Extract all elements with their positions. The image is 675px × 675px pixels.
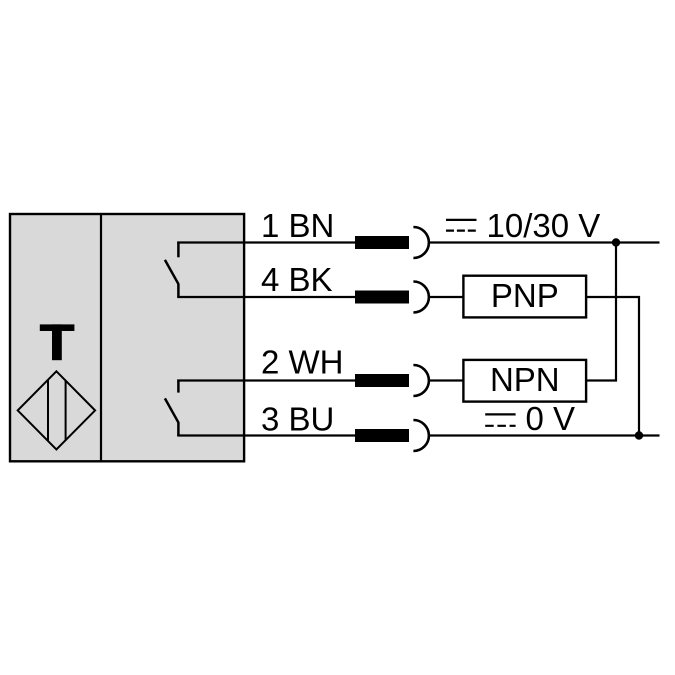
T symbol (sensor function mark) xyxy=(40,324,75,360)
svg-text:1 BN: 1 BN xyxy=(261,207,334,244)
housing divider line xyxy=(100,214,102,461)
wire 3 BU (pin 3, left segment) xyxy=(177,434,356,436)
diamond (sensor element symbol) xyxy=(18,371,95,449)
DC symbol (0 V) xyxy=(485,414,515,425)
socket arc pin 1 xyxy=(413,227,429,258)
junction dot on 0V rail xyxy=(635,431,643,439)
label 10/30 V xyxy=(487,207,601,244)
connector pin 3 (black block) xyxy=(355,429,409,442)
svg-text:PNP: PNP xyxy=(491,277,559,314)
label 0 V xyxy=(526,400,576,437)
PNP box xyxy=(463,276,586,318)
wire NPN output up to supply rail xyxy=(586,243,616,381)
switch S1 (upper NO contact) xyxy=(165,242,179,298)
svg-text:NPN: NPN xyxy=(490,361,560,398)
wire PNP output down to 0V rail xyxy=(586,297,639,436)
wire 2 WH (pin 2, left segment) xyxy=(177,379,356,381)
wire 1 BN (pin 1, left segment) xyxy=(177,241,356,243)
connector pin 2 (black block) xyxy=(355,374,409,387)
switch S2 (lower NO contact) xyxy=(165,380,179,437)
socket arc pin 4 xyxy=(413,282,429,313)
junction dot on supply rail xyxy=(612,238,620,246)
label 1 BN xyxy=(261,207,334,244)
label 2 WH xyxy=(261,344,344,381)
socket arc pin 3 xyxy=(413,420,429,451)
svg-text:4 BK: 4 BK xyxy=(261,261,333,298)
svg-text:0 V: 0 V xyxy=(526,400,576,437)
wire 1 BN (right segment to supply rail) xyxy=(429,241,660,243)
wire 3 BU (right segment to 0V rail) xyxy=(429,434,660,436)
svg-text:10/30 V: 10/30 V xyxy=(487,207,601,244)
label 3 BU xyxy=(261,400,334,437)
svg-text:3 BU: 3 BU xyxy=(261,400,334,437)
socket arc pin 2 xyxy=(413,365,429,396)
NPN box xyxy=(463,360,586,402)
connector pin 1 (black block) xyxy=(355,236,409,249)
sensor body (grey housing) xyxy=(10,214,244,461)
wire 2 WH (segment to NPN box) xyxy=(429,379,465,381)
connector pin 4 (black block) xyxy=(355,291,409,304)
wire 4 BK (segment to PNP box) xyxy=(429,296,465,298)
svg-text:2 WH: 2 WH xyxy=(261,344,344,381)
wire 4 BK (pin 4, left segment) xyxy=(177,296,356,298)
label 4 BK xyxy=(261,261,333,298)
DC symbol (supply) xyxy=(446,220,477,231)
